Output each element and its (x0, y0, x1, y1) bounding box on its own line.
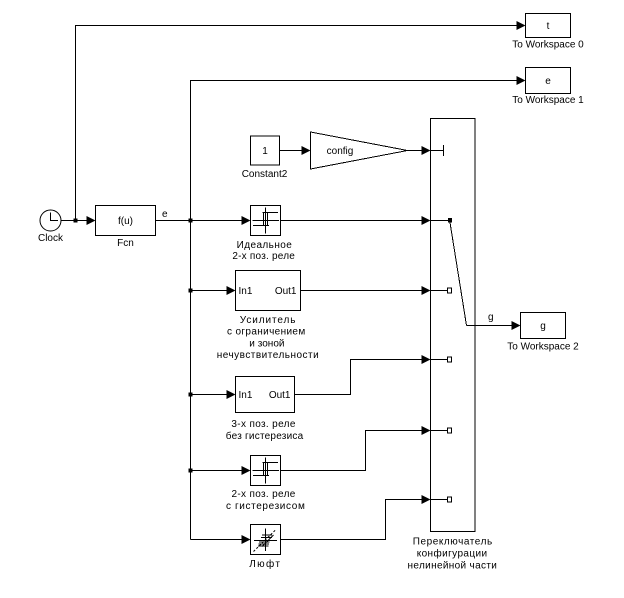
svg-text:e: e (162, 209, 168, 220)
wire e-bus to реле2 (191, 466, 251, 475)
svg-text:Переключатель: Переключатель (413, 537, 492, 548)
wire e-bus to Люфт (191, 535, 251, 544)
wire e-bus vertical (191, 81, 518, 540)
svg-text:3-х поз. реле: 3-х поз. реле (231, 419, 295, 430)
wire e-bus to Усилитель (191, 286, 236, 295)
wire relay1 to switch (281, 216, 431, 225)
svg-text:нечувствительности: нечувствительности (217, 350, 319, 361)
wire switch output g (467, 312, 521, 330)
svg-text:Out1: Out1 (269, 390, 291, 401)
wire Усилитель to switch (301, 286, 431, 295)
svg-text:Усилитель: Усилитель (240, 315, 296, 326)
svg-text:1: 1 (262, 146, 268, 157)
svg-text:с гистерезисом: с гистерезисом (226, 501, 305, 512)
svg-text:2-х поз. реле: 2-х поз. реле (231, 489, 295, 500)
block Fcn f(u) (96, 206, 156, 250)
svg-text:нелинейной части: нелинейной части (408, 561, 497, 572)
svg-text:Out1: Out1 (275, 286, 297, 297)
svg-text:с ограничением: с ограничением (227, 327, 305, 338)
wire e-bus to 3-х поз (191, 390, 236, 399)
node junction Clock/t (74, 219, 78, 223)
multiport switch Переключатель (408, 119, 497, 572)
wire 3-х поз to switch (295, 355, 431, 395)
block relay Идеальное 2-х поз. реле (232, 206, 295, 263)
block Люфт backlash (249, 525, 280, 571)
svg-text:e: e (545, 76, 551, 87)
block relay 2-х поз. реле с гистерезисом (226, 456, 305, 513)
wire Clock to Fcn (61, 216, 96, 225)
wire arrow into To Workspace 1 (517, 76, 526, 85)
svg-text:To Workspace 2: To Workspace 2 (507, 342, 579, 353)
svg-text:g: g (488, 312, 494, 323)
svg-text:In1: In1 (239, 286, 253, 297)
svg-text:конфигурации: конфигурации (417, 548, 487, 560)
svg-text:Constant2: Constant2 (242, 169, 288, 180)
svg-text:Clock: Clock (38, 233, 64, 244)
svg-text:Идеальное: Идеальное (237, 240, 293, 251)
wire Gain to Switch control (408, 146, 431, 155)
gain config (311, 132, 408, 169)
svg-text:Fcn: Fcn (117, 238, 134, 249)
wire реле2 to switch (281, 426, 431, 471)
svg-text:To Workspace 0: To Workspace 0 (512, 40, 584, 51)
node junction e-bus to 3-х поз (189, 393, 193, 397)
clock Clock (38, 210, 64, 244)
wire t branch to To Workspace 0 (76, 21, 526, 221)
block To Workspace 0 (512, 14, 584, 51)
svg-text:без гистерезиса: без гистерезиса (226, 430, 304, 442)
block To Workspace 1 (512, 68, 584, 107)
subsystem Усилитель (217, 271, 319, 362)
svg-text:2-х поз. реле: 2-х поз. реле (232, 251, 295, 262)
svg-text:To Workspace 1: To Workspace 1 (512, 95, 584, 106)
subsystem 3-х поз. реле без гистерезиса (226, 377, 304, 443)
svg-text:и зоной: и зоной (249, 338, 284, 349)
node junction e-bus to реле с гистерезисом (189, 469, 193, 473)
svg-text:In1: In1 (239, 390, 253, 401)
wire Fcn output e to relay (156, 209, 251, 225)
svg-text:g: g (540, 321, 546, 332)
block Constant2 (242, 136, 288, 180)
svg-text:t: t (547, 21, 550, 32)
node junction e-bus top (189, 219, 193, 223)
node junction e-bus to Усилитель (189, 289, 193, 293)
svg-text:config: config (327, 146, 354, 157)
svg-text:f(u): f(u) (118, 216, 133, 227)
wire Constant2 to Gain (280, 146, 311, 155)
block To Workspace 2 (507, 313, 579, 353)
wire Люфт to switch (281, 495, 431, 540)
